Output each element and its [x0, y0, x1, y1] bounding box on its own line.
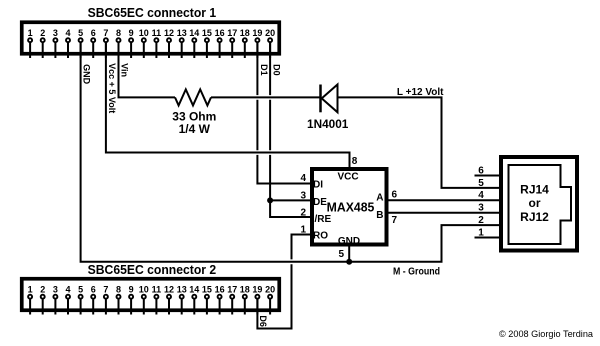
- J2 pin 8: [116, 284, 121, 314]
- wire Vin net: J1 pin 8 down, right to resistor R1: [119, 43, 176, 98]
- svg-text:15: 15: [202, 284, 212, 294]
- svg-text:6: 6: [478, 165, 484, 176]
- J1 pin 9: [129, 28, 134, 58]
- svg-text:L +12 Volt: L +12 Volt: [397, 87, 444, 98]
- J2 pin 9: [129, 284, 134, 314]
- svg-text:8: 8: [116, 28, 121, 38]
- svg-text:7: 7: [103, 284, 108, 294]
- svg-text:DI: DI: [313, 180, 323, 191]
- J1 pin 2: [40, 28, 45, 58]
- svg-text:1: 1: [28, 28, 33, 38]
- svg-text:GND: GND: [82, 64, 92, 85]
- J1 pin 5: [78, 28, 83, 58]
- svg-text:RJ12: RJ12: [520, 210, 549, 224]
- svg-text:RO: RO: [313, 231, 328, 242]
- svg-text:1: 1: [28, 284, 33, 294]
- svg-text:14: 14: [189, 284, 199, 294]
- J1 pin 1: [28, 28, 33, 58]
- svg-text:SBC65EC connector 1: SBC65EC connector 1: [88, 5, 217, 20]
- junction DE-/RE tie: [267, 197, 273, 203]
- svg-text:14: 14: [189, 28, 199, 38]
- svg-text:D6: D6: [258, 315, 268, 327]
- svg-text:3: 3: [478, 203, 484, 214]
- svg-text:15: 15: [202, 28, 212, 38]
- J3 jack opening outline: [509, 165, 572, 244]
- svg-text:D1: D1: [259, 64, 269, 76]
- svg-text:/RE: /RE: [315, 214, 332, 225]
- svg-text:10: 10: [139, 28, 149, 38]
- J1 pin 11: [152, 28, 162, 58]
- svg-text:VCC: VCC: [337, 172, 358, 183]
- svg-text:9: 9: [129, 28, 134, 38]
- svg-text:17: 17: [227, 284, 237, 294]
- svg-text:© 2008 Giorgio Terdina: © 2008 Giorgio Terdina: [499, 329, 593, 339]
- svg-text:6: 6: [91, 28, 96, 38]
- svg-text:11: 11: [152, 28, 162, 38]
- wire R1 to diode D1 cathode: [211, 96, 321, 98]
- wire GND net: J1 pin 5 down to ground rail, right, up to RJ pin 2: [81, 43, 501, 262]
- connector J3 RJ14 or RJ12 jack: [475, 157, 578, 251]
- J1 pin 7: [103, 28, 108, 58]
- svg-text:8: 8: [352, 156, 358, 167]
- svg-text:5: 5: [78, 28, 83, 38]
- J2 pin 10: [139, 284, 149, 314]
- J2 pin 14: [189, 284, 199, 314]
- J2 pin 19: [252, 284, 262, 314]
- svg-text:1: 1: [300, 224, 306, 235]
- svg-text:19: 19: [252, 284, 262, 294]
- diode D1 1N4001: [321, 85, 338, 113]
- svg-text:GND: GND: [338, 236, 360, 247]
- svg-text:16: 16: [215, 28, 225, 38]
- J2 pin 17: [227, 284, 237, 314]
- svg-text:5: 5: [478, 178, 484, 189]
- J2 pin 16: [215, 284, 225, 314]
- J2 pin 2: [40, 284, 45, 314]
- svg-text:13: 13: [177, 28, 187, 38]
- J2 pin 1: [28, 284, 33, 314]
- connector J2 body: [22, 279, 280, 311]
- svg-text:B: B: [376, 210, 383, 221]
- J1 pin 17: [227, 28, 237, 58]
- J2 pin 7: [103, 284, 108, 314]
- svg-text:6: 6: [392, 190, 398, 201]
- svg-text:16: 16: [215, 284, 225, 294]
- junction U1 GND to ground rail: [346, 259, 352, 265]
- svg-text:3: 3: [53, 284, 58, 294]
- svg-text:17: 17: [227, 28, 237, 38]
- svg-text:5: 5: [338, 249, 344, 260]
- svg-text:10: 10: [139, 284, 149, 294]
- svg-text:Vcc + 5 Volt: Vcc + 5 Volt: [107, 63, 117, 113]
- svg-text:RJ14: RJ14: [520, 183, 549, 197]
- J3 pin 6 stub: [475, 175, 502, 177]
- svg-text:3: 3: [300, 191, 306, 202]
- J2 pin 20: [265, 284, 275, 314]
- J2 pin 11: [152, 284, 162, 314]
- J1 pin 10: [139, 28, 149, 58]
- J2 pin 12: [164, 284, 174, 314]
- J2 pin 6: [91, 284, 96, 314]
- connector J2 SBC65EC connector 2: [22, 262, 280, 315]
- J1 pin 14: [189, 28, 199, 58]
- svg-text:20: 20: [265, 28, 275, 38]
- svg-text:1N4001: 1N4001: [307, 117, 349, 131]
- J1 pin 16: [215, 28, 225, 58]
- J1 pin 12: [164, 28, 174, 58]
- J1 pin 8: [116, 28, 121, 58]
- J3 outer body: [501, 157, 577, 251]
- J2 pin 3: [53, 284, 58, 314]
- connector J1 SBC65EC connector 1: [22, 5, 280, 58]
- J1 pin 3: [53, 28, 58, 58]
- J2 pin 4: [65, 284, 70, 314]
- J1 pin 19: [252, 28, 262, 58]
- op-amp U1 MAX485 transceiver: [300, 156, 397, 260]
- resistor R1 33 Ohm 1/4 W: [175, 89, 211, 105]
- svg-text:A: A: [376, 192, 383, 203]
- svg-text:2: 2: [40, 284, 45, 294]
- J1 pin 4: [65, 28, 70, 58]
- svg-text:20: 20: [265, 284, 275, 294]
- U1 body: [312, 169, 387, 245]
- svg-text:11: 11: [152, 284, 162, 294]
- J1 pin 13: [177, 28, 187, 58]
- svg-text:7: 7: [392, 215, 398, 226]
- svg-text:9: 9: [129, 284, 134, 294]
- J1 pin 20: [265, 28, 275, 58]
- connector J1 body: [22, 22, 280, 54]
- J3 pin 1 stub: [475, 237, 502, 239]
- svg-text:18: 18: [240, 28, 250, 38]
- svg-text:2: 2: [300, 207, 306, 218]
- J2 pin 13: [177, 284, 187, 314]
- wire A net: U1 pin 6 to RJ pin 4: [387, 199, 502, 201]
- svg-text:1/4 W: 1/4 W: [179, 122, 211, 136]
- svg-text:5: 5: [78, 284, 83, 294]
- svg-text:SBC65EC connector 2: SBC65EC connector 2: [88, 262, 217, 277]
- svg-text:or: or: [529, 196, 541, 210]
- svg-text:13: 13: [177, 284, 187, 294]
- wire Vcc+5V net: J1 pin 7 down, right to U1 pin 8: [106, 43, 350, 168]
- svg-text:18: 18: [240, 284, 250, 294]
- J1 pin 18: [240, 28, 250, 58]
- J2 pin 5: [78, 284, 83, 314]
- J2 pin 15: [202, 284, 212, 314]
- svg-text:4: 4: [478, 190, 484, 201]
- svg-text:3: 3: [53, 28, 58, 38]
- wire D1 data net: J1 pin 19 down to U1 DI (pin 4): [257, 43, 312, 184]
- svg-text:2: 2: [40, 28, 45, 38]
- svg-text:4: 4: [65, 28, 70, 38]
- wire DE/RE tie down to U1 /RE (pin 2): [270, 200, 312, 217]
- svg-text:19: 19: [252, 28, 262, 38]
- svg-text:4: 4: [300, 173, 306, 184]
- svg-text:4: 4: [65, 284, 70, 294]
- svg-text:D0: D0: [272, 64, 282, 76]
- J1 pin 15: [202, 28, 212, 58]
- svg-text:12: 12: [164, 284, 174, 294]
- wire RO-D6 net: U1 pin 1 left, down, left, up to J2 pin 19: [257, 235, 312, 329]
- svg-text:M - Ground: M - Ground: [393, 267, 440, 278]
- J1 pin 6: [91, 28, 96, 58]
- wire diode D1 anode to +12V corner, down to RJ pin 5: [338, 97, 502, 187]
- svg-text:8: 8: [116, 284, 121, 294]
- wire U1 GND pin 5 down to ground rail: [348, 246, 350, 262]
- wire B net: U1 pin 7 to RJ pin 3: [387, 212, 502, 214]
- wire D0 data net: J1 pin 20 down to U1 DE (pin 3): [270, 43, 312, 201]
- svg-text:1: 1: [478, 227, 484, 238]
- svg-text:12: 12: [164, 28, 174, 38]
- svg-text:DE: DE: [313, 197, 327, 208]
- svg-text:Vin: Vin: [119, 63, 129, 77]
- svg-text:7: 7: [103, 28, 108, 38]
- J2 pin 18: [240, 284, 250, 314]
- svg-text:2: 2: [478, 215, 484, 226]
- svg-text:6: 6: [91, 284, 96, 294]
- svg-text:MAX485: MAX485: [327, 201, 375, 215]
